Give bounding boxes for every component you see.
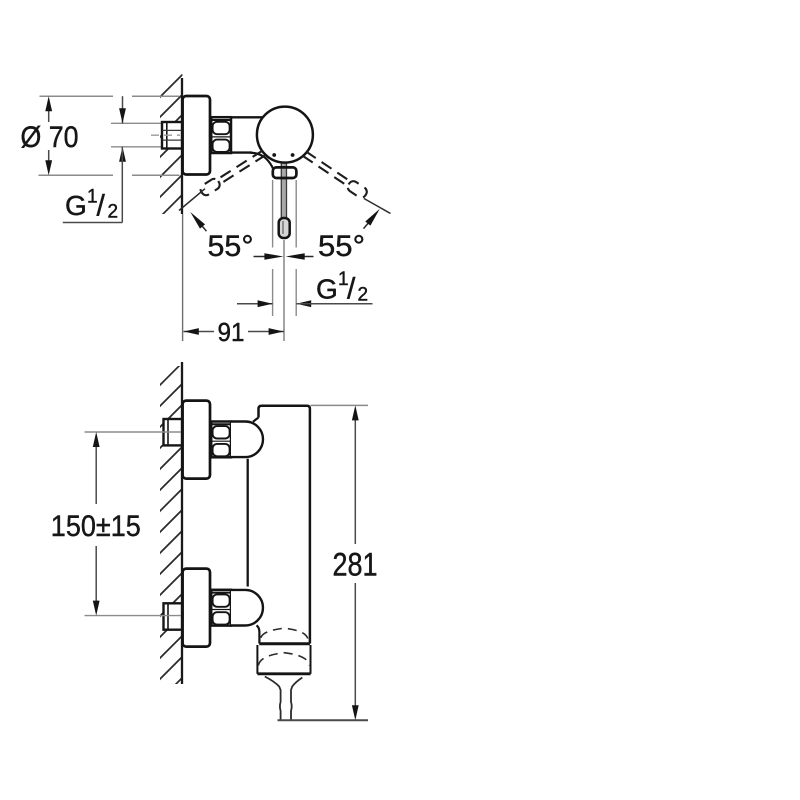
svg-text:/: / <box>97 190 106 223</box>
coupling nut top view <box>211 117 231 153</box>
pipe centerline dashes <box>151 134 180 136</box>
valve body top view <box>231 117 273 168</box>
angular dimension arc right <box>286 207 383 260</box>
dots on cap <box>272 153 276 157</box>
valve body front view <box>248 406 310 644</box>
dashed internal dome in cap <box>258 653 309 666</box>
supply centerline bottom <box>85 615 182 617</box>
wall face line front view <box>181 362 183 684</box>
svg-text:55°: 55° <box>208 230 254 263</box>
coupling nut front bottom <box>211 590 231 626</box>
escutcheon flange front top <box>183 401 210 479</box>
vertical centerline below lever <box>283 240 285 341</box>
hex nut behind wall bottom <box>164 603 183 629</box>
dimension G1/2 at hose port <box>237 269 373 307</box>
svg-text:/: / <box>347 273 356 306</box>
outlet cap front view <box>257 645 310 674</box>
right 55 extension line <box>364 199 391 214</box>
supply centerline top (150 dim extension) <box>85 431 182 433</box>
dashed lever swung left 55 <box>301 149 368 199</box>
dimension 281 <box>278 405 378 720</box>
lever handle pointing down <box>273 158 297 238</box>
svg-text:91: 91 <box>218 317 245 347</box>
svg-text:G: G <box>316 274 338 305</box>
lever hose-port extension lines <box>272 180 274 248</box>
wall face line top view <box>181 78 183 214</box>
svg-text:150±15: 150±15 <box>51 510 141 543</box>
hose nipple below outlet <box>265 677 303 720</box>
supply pipe extension lines (G1/2 small dim) <box>111 122 163 124</box>
svg-text:Ø 70: Ø 70 <box>21 121 79 154</box>
label G1/2 left with leader <box>63 187 123 223</box>
small G1/2 dimension arrows at pipe <box>119 96 126 222</box>
dimension 91 <box>184 317 285 347</box>
svg-text:281: 281 <box>333 547 378 583</box>
dashed internal dome in body <box>261 628 308 638</box>
wall hatching front view <box>155 358 187 705</box>
angular dimension arc left <box>188 210 284 260</box>
svg-text:55°: 55° <box>318 230 365 263</box>
hex nut behind wall top <box>164 419 183 445</box>
dimension 150±15 <box>51 432 141 616</box>
threaded nipple behind wall <box>162 122 182 149</box>
dimension Ø70 arrows <box>45 96 52 175</box>
svg-text:2: 2 <box>108 202 119 223</box>
wall face extension down to 91 dimension <box>182 214 184 341</box>
escutcheon flange top view <box>183 96 210 175</box>
svg-text:G: G <box>65 190 87 221</box>
left 55 extension line <box>179 189 205 211</box>
coupling nut front top <box>211 422 231 458</box>
escutcheon flange front bottom <box>183 569 210 647</box>
dimension Ø70 extension lines <box>40 95 114 97</box>
union dome front top <box>231 422 263 458</box>
union dome front bottom <box>231 590 263 626</box>
lever cap circle top view <box>257 107 313 163</box>
dashed lever swung right 55 <box>199 148 267 197</box>
svg-text:2: 2 <box>358 285 369 306</box>
wall hatching top view <box>155 70 187 242</box>
